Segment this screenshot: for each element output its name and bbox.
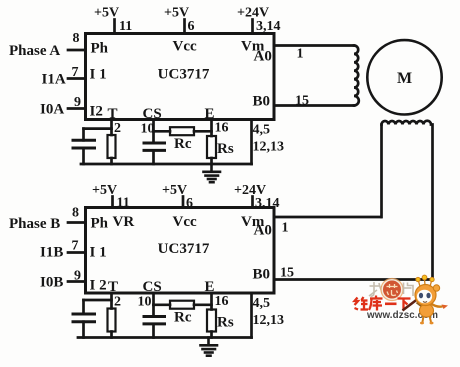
svg-text:Rc: Rc bbox=[174, 310, 192, 326]
svg-text:T: T bbox=[108, 279, 118, 295]
wire U2 B0 output (pin 15) bbox=[274, 278, 433, 281]
svg-text:1: 1 bbox=[282, 221, 289, 236]
resistor RT (timing) bbox=[108, 135, 116, 164]
wire Phase B to U2 pin 8 bbox=[68, 221, 86, 224]
svg-text:8: 8 bbox=[73, 31, 80, 46]
watermark red char 维 bbox=[355, 297, 369, 310]
svg-text:UC3717: UC3717 bbox=[158, 241, 210, 257]
svg-text:CS: CS bbox=[143, 279, 162, 295]
svg-text:Phase B: Phase B bbox=[9, 216, 60, 232]
wire winding B right to U2 B0 bbox=[431, 125, 434, 280]
svg-text:I 1: I 1 bbox=[90, 67, 107, 83]
wire U1 ground rail bbox=[81, 163, 252, 166]
wire U2 pin 6 stub bbox=[182, 197, 185, 208]
wire U2 pins 3,14 stub bbox=[251, 197, 254, 208]
svg-text:11: 11 bbox=[119, 19, 132, 34]
svg-text:I1A: I1A bbox=[42, 72, 66, 88]
wire U2 pin 10 stub (CS) bbox=[152, 293, 155, 305]
svg-text:I2: I2 bbox=[90, 104, 103, 120]
svg-text:3,14: 3,14 bbox=[255, 196, 280, 211]
svg-text:11: 11 bbox=[117, 196, 130, 211]
wire U1 pin 10 stub (CS) bbox=[152, 120, 155, 132]
svg-text:Phase A: Phase A bbox=[9, 43, 60, 59]
svg-text:16: 16 bbox=[215, 294, 229, 309]
wire U2 pin 16 stub (E) bbox=[210, 293, 213, 310]
svg-text:8: 8 bbox=[72, 206, 79, 221]
svg-text:15: 15 bbox=[295, 94, 309, 109]
wire U1 pins 4,5 ground stub bbox=[250, 120, 253, 165]
wire winding B left to U2 A0 bbox=[380, 125, 383, 218]
wire U1 pin 6 stub bbox=[183, 20, 186, 34]
capacitor C4 (CS filter) bbox=[144, 305, 165, 338]
svg-text:UC3717: UC3717 bbox=[158, 67, 210, 83]
watermark red char 一 bbox=[385, 302, 397, 305]
watermark outlined char 片 bbox=[404, 283, 414, 297]
wire U2 pin 11 stub bbox=[111, 197, 114, 208]
watermark mascot bbox=[403, 275, 449, 324]
svg-text:6: 6 bbox=[186, 196, 193, 211]
svg-text:I0B: I0B bbox=[40, 275, 63, 291]
svg-text:I0A: I0A bbox=[40, 102, 64, 118]
wire U2 A0 output (pin 1) bbox=[274, 216, 381, 219]
capacitor C3 (timing) bbox=[73, 300, 95, 338]
svg-text:I1B: I1B bbox=[40, 245, 63, 261]
svg-text:M: M bbox=[397, 70, 412, 87]
svg-text:A0: A0 bbox=[254, 49, 272, 65]
svg-text:Rc: Rc bbox=[174, 136, 192, 152]
svg-text:B0: B0 bbox=[253, 94, 271, 110]
wire U2 pins 4,5 ground stub bbox=[250, 293, 253, 338]
inductor motor winding A bbox=[354, 46, 359, 106]
svg-text:1: 1 bbox=[297, 47, 304, 62]
op-amp U2 UC3717 body bbox=[86, 208, 275, 294]
svg-text:Rs: Rs bbox=[217, 141, 234, 157]
wire I1A to U1 pin 7 bbox=[68, 77, 86, 80]
wire Rc2 to E node bbox=[194, 303, 212, 306]
capacitor C1 (timing) bbox=[73, 129, 95, 164]
svg-text:16: 16 bbox=[215, 121, 229, 136]
wire U1 pin 16 stub (E) bbox=[210, 120, 213, 137]
svg-text:Vcc: Vcc bbox=[173, 39, 197, 55]
wire U1 pin 2 stub (T) bbox=[110, 120, 113, 136]
watermark red char 下 bbox=[398, 299, 411, 311]
watermark outlined char 我 bbox=[369, 282, 385, 297]
svg-text:Ph: Ph bbox=[91, 41, 109, 57]
svg-text:10: 10 bbox=[138, 295, 152, 310]
svg-text:12,13: 12,13 bbox=[253, 140, 285, 155]
wire T node to capacitor C1 bbox=[84, 127, 112, 130]
svg-text:A0: A0 bbox=[254, 223, 272, 239]
ground symbol (U1) bbox=[204, 164, 221, 182]
svg-text:I 2: I 2 bbox=[90, 278, 107, 294]
wire U1 A0 output (pin 1) bbox=[274, 44, 354, 47]
wire U2 pin 2 stub (T) bbox=[110, 293, 113, 309]
watermark red char 库 bbox=[369, 296, 383, 311]
op-amp U1 UC3717 body bbox=[86, 34, 275, 120]
svg-text:12,13: 12,13 bbox=[253, 313, 285, 328]
svg-text:CS: CS bbox=[143, 106, 162, 122]
svg-text:E: E bbox=[205, 279, 215, 295]
resistor Rc2 bbox=[170, 301, 194, 309]
wire I0B to U2 pin 9 bbox=[68, 280, 86, 283]
svg-text:B0: B0 bbox=[253, 267, 271, 283]
ground symbol (U2) bbox=[201, 338, 218, 356]
resistor RT2 (timing) bbox=[108, 309, 116, 338]
resistor Rs (sense) bbox=[207, 136, 216, 164]
svg-text:I 1: I 1 bbox=[90, 245, 107, 261]
motor M bbox=[367, 40, 441, 114]
wire Rc to E node bbox=[194, 130, 212, 133]
wire U1 pin 11 stub bbox=[113, 20, 116, 34]
wire I1B to U2 pin 7 bbox=[68, 251, 86, 254]
svg-text:4,5: 4,5 bbox=[253, 296, 271, 311]
wire U1 pins 3,14 stub bbox=[251, 20, 254, 34]
svg-text:2: 2 bbox=[114, 295, 121, 310]
wire T node to capacitor C3 bbox=[84, 299, 112, 302]
wire I0A to U1 pin 9 bbox=[68, 107, 86, 110]
wire CS node to resistor Rc bbox=[154, 130, 171, 133]
svg-text:Ph: Ph bbox=[91, 216, 109, 232]
wire Phase A to U1 pin 8 bbox=[68, 49, 86, 52]
svg-text:2: 2 bbox=[114, 121, 121, 136]
svg-text:3,14: 3,14 bbox=[256, 19, 281, 34]
svg-text:15: 15 bbox=[280, 266, 294, 281]
capacitor C2 (CS filter) bbox=[144, 131, 165, 164]
svg-text:E: E bbox=[205, 106, 215, 122]
svg-text:VR: VR bbox=[113, 214, 135, 230]
inductor motor winding B bbox=[382, 121, 432, 125]
resistor Rs2 (sense) bbox=[207, 310, 216, 338]
wire U2 ground rail bbox=[78, 336, 252, 339]
svg-text:Vcc: Vcc bbox=[173, 214, 197, 230]
svg-text:4,5: 4,5 bbox=[253, 123, 271, 138]
svg-text:6: 6 bbox=[188, 19, 195, 34]
wire U1 B0 output (pin 15) bbox=[274, 104, 354, 107]
resistor Rc bbox=[170, 127, 194, 135]
watermark chip logo circle 芯 bbox=[381, 279, 403, 301]
svg-text:Rs: Rs bbox=[217, 315, 234, 331]
wire CS node to resistor Rc2 bbox=[154, 303, 171, 306]
